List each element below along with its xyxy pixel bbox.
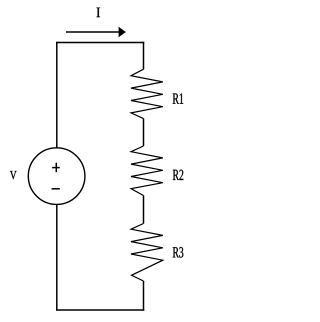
- label I (current): [97, 8, 101, 18]
- arrowhead: [119, 27, 126, 37]
- wire right upper: [143, 42, 145, 70]
- wire right lower: [143, 281, 145, 311]
- resistor R3 zigzag: [131, 224, 163, 282]
- label R3: [173, 247, 184, 257]
- wire right between R2 and R3: [143, 196, 145, 224]
- wire top: [56, 42, 144, 44]
- wire right between R1 and R2: [143, 119, 145, 147]
- label R2: [173, 170, 184, 180]
- resistor R1 zigzag: [131, 69, 163, 118]
- wire left lower: [56, 204, 58, 310]
- wire left upper: [56, 42, 58, 148]
- voltage source V (circle): [28, 148, 85, 205]
- resistor R2 zigzag: [131, 146, 163, 196]
- label R1: [173, 93, 184, 103]
- minus sign inside source: [52, 188, 60, 190]
- wire bottom: [56, 309, 144, 311]
- plus sign inside source: [52, 163, 60, 173]
- label V: [10, 171, 17, 179]
- current arrow shaft: [66, 31, 120, 33]
